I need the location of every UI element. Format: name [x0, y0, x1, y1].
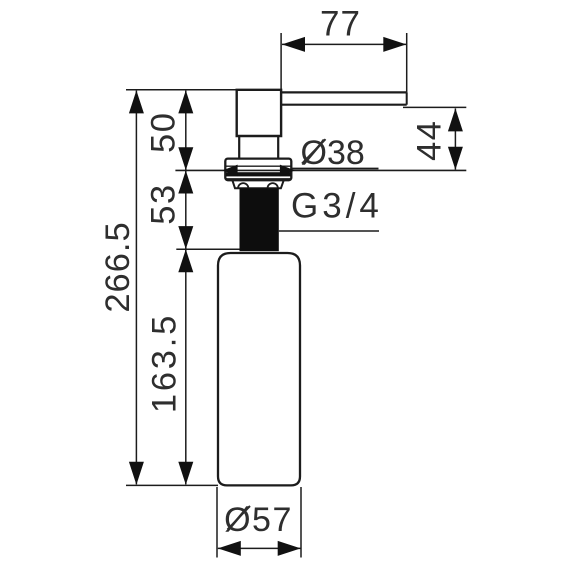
arrow 266.5 top [129, 90, 144, 113]
svg-text:163.5: 163.5 [146, 313, 184, 413]
extension line bottom left [126, 484, 218, 486]
arrow 44 down [448, 147, 463, 170]
spout tube [281, 92, 407, 104]
extension line top left [126, 89, 237, 91]
arrow 77 left [282, 37, 305, 52]
arrow 266.5 bottom [129, 462, 144, 485]
label diameter 57 slash extension [228, 506, 251, 530]
extension line 44 top [403, 106, 466, 108]
svg-text:Ø57: Ø57 [224, 501, 293, 539]
arrow d38 right [280, 165, 295, 177]
dimension line d57 [218, 547, 301, 549]
extension line d57 left [216, 487, 218, 558]
arrow pair at bottle top level [178, 226, 193, 272]
svg-text:44: 44 [411, 120, 449, 161]
arrow 50 top [178, 90, 193, 113]
svg-text:50: 50 [145, 112, 183, 153]
arrow d57 left [218, 541, 241, 556]
arrow 77 right [383, 37, 406, 52]
extension line at bottle top level [176, 248, 239, 250]
chain dimension line 50/53/163.5 [185, 91, 187, 485]
nut scallop right [268, 183, 278, 188]
extension line d57 right [300, 487, 302, 558]
mounting nut [232, 180, 283, 188]
main horizontal line at flange level [175, 169, 466, 171]
svg-text:Ø38: Ø38 [301, 134, 365, 172]
svg-text:266.5: 266.5 [99, 221, 137, 312]
spout end [406, 92, 408, 104]
label diameter 38 slash extension [302, 139, 326, 163]
arrow 163.5 bottom [178, 462, 193, 485]
svg-text:77: 77 [320, 4, 361, 43]
extension line 77 right [406, 33, 408, 92]
leader line d38 [291, 168, 379, 170]
arrow 44 up [448, 108, 463, 131]
overall dimension line 266.5 [135, 91, 137, 485]
dimension line 44 [454, 108, 456, 169]
extension line 77 left [280, 33, 282, 90]
dimension line 77 [282, 43, 406, 45]
pump head body [237, 90, 281, 136]
threaded shank G3/4 [240, 188, 279, 251]
arrow pair at flange level [178, 147, 193, 193]
nut scallop left [238, 183, 248, 188]
flange inner line upper [225, 165, 291, 167]
flange plate [225, 159, 291, 181]
flange seal band [226, 172, 291, 176]
bottle body [218, 253, 300, 485]
pump stem [239, 136, 278, 159]
arrow d38 left [223, 165, 238, 177]
arrow d57 right [278, 541, 301, 556]
leader line G3/4 [279, 230, 379, 232]
svg-text:G3/4: G3/4 [291, 187, 383, 226]
svg-text:53: 53 [145, 183, 183, 224]
flange inner line lower [226, 177, 290, 179]
